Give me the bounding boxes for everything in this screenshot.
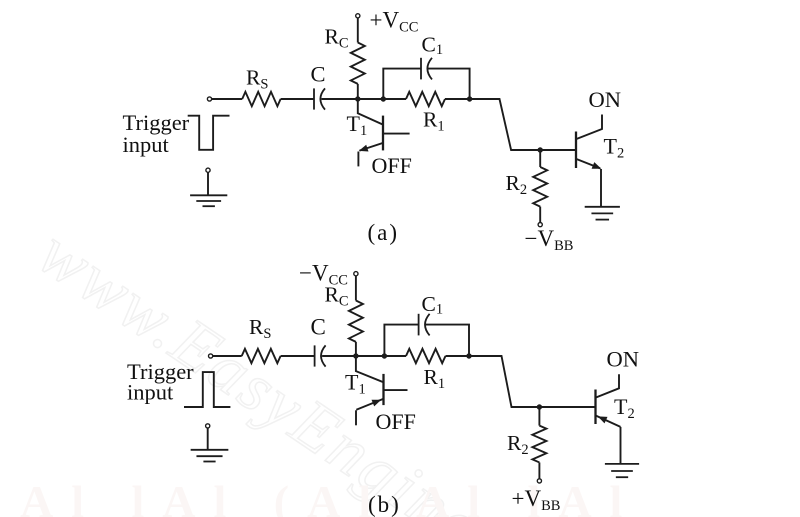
transistor T1 base stub (b) <box>384 389 408 391</box>
wire R1 to node3 (a) <box>445 98 470 100</box>
wire R1 to node3 (b) <box>446 355 470 357</box>
transistor T2 emitter wire (b) <box>620 427 622 464</box>
ground input (a) <box>190 194 227 196</box>
transistor T2 collector lead (b) <box>596 374 619 397</box>
node R2 T2 base junction (a) <box>538 147 543 152</box>
wire C1 branch right (b) <box>425 325 469 356</box>
capacitor C (a) <box>313 88 315 109</box>
ground T2 (a) <box>585 206 620 208</box>
wire node to node2 (a) <box>358 98 384 100</box>
node base junction (b) <box>353 353 358 358</box>
node R1 C1 junction (a) <box>467 96 472 101</box>
input terminal (a) <box>207 97 211 101</box>
wire node to node2 (b) <box>356 355 385 357</box>
wire C1 branch left (b) <box>384 325 418 356</box>
transistor T1 base bar (a) <box>382 116 384 151</box>
svg-text:OFF: OFF <box>372 153 412 178</box>
wire node3 right and slant down (b) <box>469 356 596 407</box>
resistor RS (a) <box>242 92 280 106</box>
svg-text:(a): (a) <box>368 220 400 245</box>
transistor T1 emitter lead (a) <box>360 143 384 151</box>
transistor T1 collector lead (a) <box>358 99 383 125</box>
ground terminal (b) <box>206 424 210 428</box>
ground wire (a) <box>207 173 209 196</box>
capacitor C (b) <box>314 345 316 366</box>
ground T2 (b) <box>605 463 639 465</box>
wire node2 to R1 (a) <box>383 98 406 100</box>
capacitor C1 (a) <box>420 58 422 80</box>
wire C to node (a) <box>322 98 358 100</box>
transistor T2 base bar (a) <box>575 132 577 169</box>
wire input to RS (a) <box>212 98 242 100</box>
transistor T2 collector lead (a) <box>576 115 602 140</box>
transistor T2 emitter wire (a) <box>600 169 602 206</box>
svg-text:ON: ON <box>607 347 640 372</box>
node base junction (a) <box>355 96 360 101</box>
wire RS to C (a) <box>281 98 314 100</box>
terminal +VBB (b) <box>537 479 541 483</box>
terminal +VCC (a) <box>356 14 360 18</box>
transistor T2 base bar (b) <box>594 390 596 425</box>
wire RC to VCC terminal (a) <box>357 18 359 42</box>
wire RS to C (b) <box>281 355 315 357</box>
resistor RS (b) <box>242 349 281 363</box>
node R2 T2 base junction (b) <box>537 404 542 409</box>
transistor T2 emitter lead (a) <box>576 159 600 168</box>
transistor T1 emitter stub (b) <box>355 410 357 425</box>
node R1 C1 junction (b) <box>466 353 471 358</box>
resistor RC (a) <box>351 43 365 84</box>
resistor R1 (b) <box>406 349 445 363</box>
wire node4 to R2 (a) <box>539 150 541 167</box>
wire node3 right and slant down (a) <box>470 99 576 150</box>
transistor T1 emitter stub (a) <box>357 152 359 167</box>
ground input (b) <box>191 449 229 451</box>
watermark diagonal www.EasyEngineering <box>26 213 596 517</box>
wire C to node (b) <box>322 355 356 357</box>
wire node4 to R2 (b) <box>538 407 540 426</box>
trigger pulse waveform (a) <box>188 116 230 150</box>
svg-text:C: C <box>311 315 326 340</box>
resistor R1 (a) <box>406 92 445 106</box>
svg-text:(b): (b) <box>368 492 401 517</box>
wire C1 branch left (a) <box>383 69 421 99</box>
wire input to RS (b) <box>213 355 242 357</box>
svg-text:ON: ON <box>589 87 622 112</box>
resistor R2 (a) <box>533 167 547 207</box>
terminal -VCC (b) <box>354 272 358 276</box>
transistor T1 collector lead (b) <box>356 356 384 382</box>
transistor T1 emitter arrow (a) <box>359 145 369 152</box>
transistor T1 base stub (a) <box>383 133 410 135</box>
wire R2 to +VBB terminal (b) <box>538 463 540 479</box>
svg-text:input: input <box>127 380 174 405</box>
transistor T1 base bar (b) <box>382 374 384 405</box>
transistor T1 emitter arrow (b) <box>372 400 382 407</box>
terminal -VBB (a) <box>538 223 542 227</box>
resistor RC (b) <box>349 301 363 342</box>
node C1 branch (b) <box>382 353 387 358</box>
input terminal (b) <box>209 354 213 358</box>
transistor T2 emitter lead (b) <box>596 416 621 427</box>
wire RC to VCC terminal (b) <box>355 276 357 301</box>
trigger pulse waveform (b) <box>184 372 230 407</box>
ground wire (b) <box>207 428 209 450</box>
ground terminal (a) <box>206 168 210 172</box>
wire node to RC (b) <box>355 342 357 356</box>
capacitor C1 (b) <box>418 314 420 336</box>
transistor T1 emitter lead (b) <box>356 399 383 410</box>
node C1 branch (a) <box>381 96 386 101</box>
transistor T2 emitter arrow (a) <box>592 162 602 169</box>
transistor T2 emitter arrow (b) <box>598 416 608 423</box>
wire C1 branch right (a) <box>428 69 470 99</box>
wire R2 to -VBB terminal (a) <box>539 207 541 223</box>
wire node2 to R1 (b) <box>384 355 406 357</box>
svg-text:OFF: OFF <box>376 409 416 434</box>
svg-text:C: C <box>311 62 326 87</box>
wire node to RC (a) <box>357 84 359 99</box>
resistor R2 (b) <box>532 426 546 463</box>
svg-text:input: input <box>123 132 170 157</box>
